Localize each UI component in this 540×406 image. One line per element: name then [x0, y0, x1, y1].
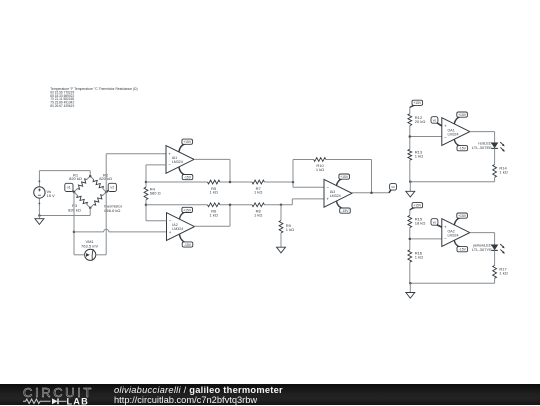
svg-text:1 kΩ: 1 kΩ: [415, 254, 423, 259]
svg-text:+15V: +15V: [458, 113, 467, 117]
wire: [494, 177, 496, 181]
resistor R2 820 kΩ (bridge upper-right): [90, 173, 112, 192]
svg-text:20 kΩ: 20 kΩ: [415, 119, 426, 124]
resistor R16 1 kΩ: [408, 239, 423, 283]
junction: [370, 192, 373, 195]
wire: [494, 148, 496, 164]
resistor R14 1 kΩ: [493, 165, 508, 178]
svg-text:+15V: +15V: [413, 204, 422, 208]
node v1: [65, 183, 74, 192]
wire: [146, 204, 208, 206]
junction: [145, 204, 148, 207]
svg-text:763.5 mV: 763.5 mV: [81, 243, 98, 248]
resistor R8 1 kΩ: [252, 203, 264, 218]
power flag -15V (OA2): [454, 240, 467, 252]
LED yellowLED LTL-307YE: [472, 243, 505, 254]
wire: [494, 233, 496, 245]
svg-text:820 kΩ: 820 kΩ: [69, 176, 82, 181]
wire: [145, 205, 147, 221]
wire: [96, 254, 106, 256]
junction: [409, 282, 412, 285]
svg-text:-15V: -15V: [341, 209, 349, 213]
svg-text:1 kΩ: 1 kΩ: [415, 154, 423, 159]
wire: [494, 250, 496, 265]
svg-text:1 kΩ: 1 kΩ: [286, 227, 294, 232]
svg-text:15 V: 15 V: [47, 193, 56, 198]
svg-text:1 kΩ: 1 kΩ: [210, 190, 218, 195]
junction (bridge right node): [105, 191, 108, 194]
junction: [409, 135, 412, 138]
resistor R4 680 Ω: [144, 182, 160, 205]
wire: [292, 160, 294, 183]
junction: [229, 204, 232, 207]
junction: [292, 181, 295, 184]
resistor R13 1 kΩ: [408, 137, 423, 182]
power flag +15V (OA1): [454, 112, 467, 124]
power flag -15V (IA1): [179, 167, 193, 180]
wire: [292, 198, 324, 200]
svg-text:v1: v1: [67, 186, 71, 190]
svg-text:LM324: LM324: [172, 227, 183, 231]
wire: [38, 171, 40, 187]
LED redLED LTL-307EE: [472, 141, 505, 152]
wire: [74, 254, 85, 256]
power flag -15V (IA2): [179, 234, 192, 247]
wire: [146, 220, 167, 222]
wire: [291, 199, 293, 205]
svg-text:−: −: [168, 163, 171, 168]
wire: [229, 205, 231, 227]
wire: [39, 170, 90, 172]
wire: [73, 192, 75, 255]
wire: [220, 204, 252, 206]
ground: [35, 216, 44, 225]
wire: [220, 181, 252, 183]
svg-text:v2: v2: [110, 186, 114, 190]
op-amp IA2 LM324: [167, 213, 195, 241]
wire: [145, 165, 147, 182]
svg-text:LM324: LM324: [330, 194, 341, 198]
op-amp OA1 LM324: [442, 118, 470, 146]
svg-text:820 kΩ: 820 kΩ: [68, 208, 81, 213]
svg-text:+: +: [168, 151, 171, 156]
svg-text:−: −: [169, 219, 172, 224]
resistor R1 820 kΩ (bridge upper-left): [69, 173, 90, 192]
wire: [293, 159, 314, 161]
svg-text:+15V: +15V: [413, 101, 422, 105]
wire: [264, 181, 293, 183]
svg-text:vo: vo: [433, 220, 437, 224]
wire: [470, 131, 495, 133]
svg-text:-15V: -15V: [184, 176, 192, 180]
wire: [229, 159, 231, 182]
wire: [293, 186, 324, 188]
junction (bridge top node): [89, 175, 92, 178]
wire: [39, 215, 90, 217]
wire: [194, 225, 230, 227]
junction: [280, 204, 283, 207]
byline text: [114, 385, 283, 405]
wire: [292, 182, 294, 187]
resistor R12 20 kΩ: [408, 107, 425, 136]
node vo (OA2 input): [431, 219, 442, 227]
svg-text:vo: vo: [433, 118, 437, 122]
wire: [410, 181, 494, 183]
svg-text:1 kΩ: 1 kΩ: [254, 190, 262, 195]
power flag +15V (R12): [410, 100, 423, 107]
svg-text:18 kΩ: 18 kΩ: [415, 221, 426, 226]
power flag +15V (IA2): [179, 207, 192, 219]
voltage source Vs 15 V: [34, 180, 55, 204]
wire: [106, 153, 166, 155]
svg-text:80 26.67 439619: 80 26.67 439619: [50, 104, 74, 108]
wire: [38, 198, 40, 215]
wire: [105, 154, 107, 255]
junction: [73, 231, 76, 234]
resistor R5 1 kΩ: [208, 180, 220, 195]
svg-text:1 kΩ: 1 kΩ: [210, 213, 218, 218]
node v2: [106, 183, 116, 192]
ground: [406, 283, 415, 298]
junction: [409, 238, 412, 241]
junction (bridge left node): [73, 191, 76, 194]
svg-text:1 kΩ: 1 kΩ: [316, 167, 324, 172]
wire: [146, 181, 208, 183]
power flag +15V (IA1): [179, 139, 193, 152]
svg-text:-15V: -15V: [184, 243, 192, 247]
voltmeter VM1 763.5 mV: [81, 239, 98, 260]
resistor R7 1 kΩ: [252, 180, 264, 195]
op-amp OA2 LM324: [442, 219, 470, 247]
svg-text:LM324: LM324: [172, 160, 183, 164]
svg-text:vo: vo: [391, 185, 395, 189]
svg-text:1 kΩ: 1 kΩ: [254, 213, 262, 218]
resistor R10 1 kΩ: [314, 158, 326, 173]
power flag +15V (OA2): [454, 213, 467, 225]
svg-text:LAB: LAB: [67, 398, 89, 406]
wire: [410, 282, 494, 284]
svg-text:LTL-307EE: LTL-307EE: [472, 145, 492, 150]
ground: [277, 247, 286, 253]
resistor R3 820 kΩ (bridge lower-left): [68, 192, 90, 213]
svg-text:LM324: LM324: [448, 233, 459, 237]
svg-text:+15V: +15V: [340, 175, 349, 179]
CircuitLab logo: [23, 385, 98, 405]
op-amp IA1 LM324: [166, 146, 194, 174]
svg-text:680 Ω: 680 Ω: [150, 191, 161, 196]
svg-text:1 kΩ: 1 kΩ: [499, 270, 507, 275]
node vo (OA1 input): [431, 117, 442, 126]
svg-text:1 kΩ: 1 kΩ: [499, 169, 507, 174]
svg-text:820 kΩ: 820 kΩ: [99, 176, 112, 181]
svg-text:+15V: +15V: [458, 214, 467, 218]
svg-text:LTL-307YE: LTL-307YE: [472, 247, 492, 252]
op-amp IA3 LM324: [324, 179, 352, 207]
svg-text:-15V: -15V: [459, 248, 467, 252]
resistor R6 1 kΩ: [208, 203, 220, 218]
junction: [38, 214, 41, 217]
thermistor 666.6 kΩ (bridge lower-right): [90, 192, 123, 213]
ground: [406, 182, 415, 197]
resistor R9 1 kΩ: [279, 205, 294, 247]
node vo (IA3 output): [389, 184, 397, 193]
junction: [229, 181, 232, 184]
footer bar: [0, 384, 540, 405]
power flag +15V (IA3): [336, 174, 349, 186]
resistor R17 1 kΩ: [493, 265, 508, 278]
svg-text:+15V: +15V: [183, 208, 192, 212]
junction: [409, 180, 412, 183]
wire: [146, 164, 166, 166]
svg-text:LM324: LM324: [448, 132, 459, 136]
wire: [194, 158, 230, 160]
wire: [470, 232, 495, 234]
svg-text:+15V: +15V: [183, 140, 192, 144]
power flag -15V (IA3): [336, 201, 350, 213]
junction: [145, 181, 148, 184]
wire: [89, 171, 91, 177]
wire: [494, 278, 496, 283]
thermistor lookup table annotation: [50, 87, 137, 108]
wire: [74, 229, 167, 232]
svg-text:+: +: [169, 230, 172, 235]
wire: [371, 160, 373, 193]
wire: [352, 192, 389, 194]
wire: [410, 136, 442, 138]
wire: [494, 132, 496, 143]
power flag +15V (R15): [410, 203, 423, 210]
wire: [326, 159, 372, 161]
svg-text:666.6 kΩ: 666.6 kΩ: [104, 208, 120, 213]
svg-text:-15V: -15V: [459, 147, 467, 151]
resistor R15 18 kΩ: [408, 210, 425, 239]
junction (bridge bottom node): [89, 207, 92, 210]
wire: [410, 238, 442, 240]
wire: [89, 208, 91, 216]
wire: [264, 204, 292, 206]
power flag -15V (OA1): [454, 139, 467, 151]
